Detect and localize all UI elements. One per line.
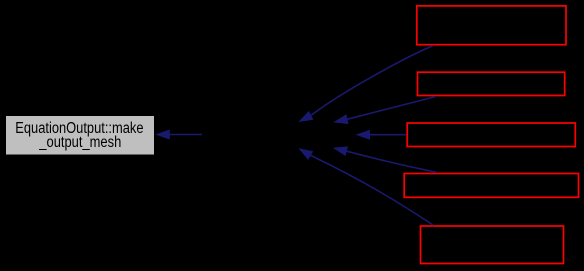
edge: box 2 to hidden central node xyxy=(333,97,435,124)
caller node box 2 (red border) xyxy=(418,72,565,95)
caller node box 5 (bottom right, red border) xyxy=(421,226,564,264)
edge: box 5 to hidden central node xyxy=(298,148,433,225)
edge: box 3 to hidden central node xyxy=(356,130,407,140)
caller node box 1 (top right, red border) xyxy=(417,6,566,45)
node EquationOutput::make_output_mesh (current node, grey) xyxy=(6,116,154,155)
caller node box 3 (red border) xyxy=(407,123,575,147)
svg-text:_output_mesh: _output_mesh xyxy=(38,134,121,151)
edge: hidden central node to EquationOutput::make_output_mesh xyxy=(155,130,202,140)
edge: box 1 to hidden central node xyxy=(298,46,433,122)
edge: box 4 to hidden central node xyxy=(333,146,437,172)
caller node box 4 (red border) xyxy=(404,174,578,198)
